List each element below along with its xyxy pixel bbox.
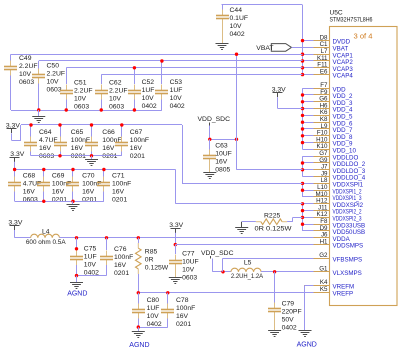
wire VREFP [305,292,314,294]
wire stub VDD [303,94,314,96]
junction [301,100,304,103]
junction [301,66,304,69]
svg-text:10V: 10V [74,96,87,103]
wire C79 lead [274,272,276,303]
svg-text:C52: C52 [142,79,155,86]
wire 3.3V stem IC [277,97,279,109]
wire stub VDDLDO [303,162,314,164]
wire lead C69 [43,170,45,177]
wire stub VDDLDO [303,176,314,178]
wire stub VDDXSPI1 [303,196,314,198]
svg-text:AGND: AGND [67,290,87,297]
svg-text:0201: 0201 [52,196,67,203]
pin F11 VCAP3 [304,62,353,73]
wire C78 lead [167,293,169,304]
junction [301,134,304,137]
value label C50 [47,63,66,94]
svg-text:16V: 16V [102,145,115,152]
wire net VCAP2 [39,60,303,62]
svg-text:0402: 0402 [142,103,157,110]
svg-text:VREFP: VREFP [333,290,354,297]
junction [301,216,304,219]
capacitor C67 [115,137,128,152]
value label C49 [19,55,38,86]
wire gnd drop row1 [38,110,40,117]
svg-text:0603: 0603 [74,104,89,111]
inductor L5 [231,268,261,272]
junction C66 top [90,123,93,126]
junction C80 top [137,291,140,294]
pin C1 VBAT [304,41,348,52]
wire lead C64 [30,125,32,137]
svg-text:3 of 4: 3 of 4 [354,32,373,41]
wire 3.3V row2 jog [11,133,13,140]
wire bus VDDXSPI2/USB [302,204,304,231]
svg-text:0603: 0603 [47,87,62,94]
pin G1 VLXSMPS [304,266,362,277]
value label C64 [39,129,58,160]
junction [301,59,304,62]
wire net VFBSMPS [223,258,314,260]
pin K5 VREFP [304,286,353,297]
ground R225 [241,222,243,228]
svg-text:100nF: 100nF [176,305,195,312]
wire lead C53 [161,61,163,84]
wire lead C62 [101,75,103,84]
svg-text:16V: 16V [71,145,84,152]
wire bus DVDD/VCAP [302,5,304,75]
power symbol 3.3V [272,86,286,97]
capacitor C69 [37,177,50,192]
wire stub VCAP [303,74,314,76]
svg-text:L4: L4 [42,229,50,236]
svg-text:G1: G1 [319,266,328,273]
wire C75-C76 gnd link [77,275,107,277]
pin K11 VCAP2 [304,55,353,66]
wire row2 ground bus [31,155,122,157]
junction row1 gnd [100,108,103,111]
pin L8 VDDXSPI1 [304,177,364,188]
wire R225 left [242,221,256,223]
value label C69 [52,172,71,203]
svg-text:VLXSMPS: VLXSMPS [333,270,362,277]
svg-text:AGND: AGND [129,342,149,348]
svg-text:VDD_SDC: VDD_SDC [198,116,231,123]
value label C75 [84,245,99,276]
op-amp U5C (IC STM32H7S7L8H6 power symbol, 3 of 4) [330,27,398,306]
svg-text:C79: C79 [282,300,295,307]
junction C65 top [58,123,61,126]
pin J7 VDDLDO_3 [304,164,366,175]
wire stub VDDLDO [303,156,314,158]
svg-text:16V: 16V [23,188,36,195]
junction [301,121,304,124]
junction L5 right / C79 tap [273,270,276,273]
wire W1 vertical [236,54,238,170]
capacitor C77 [169,255,182,270]
svg-text:16V: 16V [82,188,95,195]
wire stub VDD [303,135,314,137]
wire R85 bottom lead [138,274,140,293]
capacitor C68 [8,177,21,192]
value label C53 [170,79,185,110]
pin F8 VDD33USB [304,218,365,229]
wire C63 lead [209,139,211,149]
svg-text:0R: 0R [145,256,154,263]
wire stub DVDD [303,40,314,42]
pin H1 VDDSMPS [304,238,363,249]
value label R85 [145,248,169,271]
wire 3.3V to VDD bus [278,108,303,110]
wire C78 bottom [167,319,169,328]
svg-text:100nF: 100nF [82,180,101,187]
net flag VBAT [271,44,291,52]
svg-text:G2: G2 [319,252,328,259]
svg-text:10UF: 10UF [215,151,232,158]
wire R85 top lead [138,238,140,243]
ground [169,278,182,284]
svg-text:C44: C44 [230,7,243,14]
wire lead C49 [10,54,12,60]
wire stub VDD [303,149,314,151]
wire stub VDDXSPI2 [303,217,314,219]
wire stub VDD [303,108,314,110]
AGND symbol [297,331,317,348]
svg-text:R225: R225 [264,212,280,219]
wire W1 to VDDLDO bus [237,169,303,171]
wire stub VDD [303,122,314,124]
svg-text:VCAP4: VCAP4 [333,73,354,80]
junction [301,141,304,144]
junction [301,127,304,130]
junction row3 gnd [71,200,74,203]
svg-text:C49: C49 [19,55,32,62]
wire C76 lead [106,238,108,250]
junction C70 top [71,168,74,171]
capacitor C70 [66,177,79,192]
svg-text:VBAT: VBAT [256,45,273,52]
svg-text:0402: 0402 [282,324,297,331]
svg-text:1UF: 1UF [170,87,183,94]
svg-text:2.2UH_1.2A: 2.2UH_1.2A [231,273,264,280]
svg-text:0603: 0603 [19,79,34,86]
svg-text:1UF: 1UF [84,253,97,260]
wire row2 top 3.3V rail [21,124,182,126]
wire stub VDD [303,88,314,90]
svg-text:0603: 0603 [109,104,124,111]
wire stub VCAP [303,67,314,69]
svg-text:16V: 16V [112,188,125,195]
svg-text:VDD_SDC: VDD_SDC [201,250,234,257]
pin H12 VDDXSPI2 [304,198,364,209]
pin J11 VDDXSPI2_2 [304,204,362,215]
junction [301,182,304,185]
svg-text:100nF: 100nF [114,254,133,261]
svg-text:10V: 10V [230,23,243,30]
junction [301,93,304,96]
svg-text:C78: C78 [176,297,189,304]
ground [268,331,281,337]
junction [301,114,304,117]
svg-text:L5: L5 [244,260,252,267]
value label C65 [71,129,90,160]
svg-text:50V: 50V [282,316,295,323]
svg-text:C65: C65 [71,129,84,136]
inductor L4 [31,234,60,238]
svg-text:C51: C51 [74,80,87,87]
capacitor C52 [128,85,141,100]
wire lead C65 [60,125,62,137]
wire stub VDDXSPI1 [303,190,314,192]
wire segB down [182,125,184,183]
wire VREF riser [304,285,306,331]
junction [301,39,304,42]
wire C80-C78 bottom link [138,327,168,329]
wire gnd drop row2 [91,156,93,160]
wire lead C51 [66,68,68,84]
wire VREFM [305,285,314,287]
wire C76 bottom [106,265,108,276]
svg-text:0603: 0603 [23,196,38,203]
wire bus VDDLDO [302,156,304,176]
value label C62 [109,80,128,111]
svg-text:0201: 0201 [130,153,145,160]
pin K12 VDDXSPI2_3 [304,211,362,222]
svg-text:VFBSMPS: VFBSMPS [333,256,363,263]
ground [235,228,248,234]
wire C80 lead [138,293,140,304]
svg-text:10V: 10V [84,261,97,268]
junction row1 gnd [65,108,68,111]
pin J6 VDDA [304,232,351,243]
junction VDDA rail [105,236,108,239]
svg-text:10V: 10V [147,313,160,320]
wire R225 riser [292,217,294,221]
wire agnd drop C80 [138,327,140,331]
value label C63 [215,143,232,174]
wire net VDDA [60,237,314,239]
value label C66 [102,129,121,160]
svg-text:10V: 10V [182,266,195,273]
wire VDD_SDC drop [209,126,211,140]
pin G9 VDDLDO_2 [304,157,366,168]
svg-text:1UF: 1UF [147,305,160,312]
pin F10 VDD_8 [304,130,353,141]
junction row2 gnd [90,154,93,157]
capacitor C66 [85,137,98,152]
wire VFBSMPS riser [222,258,224,272]
svg-text:2.2UF: 2.2UF [74,88,93,95]
svg-text:0R 0.125W: 0R 0.125W [255,225,293,232]
junction [301,168,304,171]
value label C78 [176,297,195,328]
junction row1 gnd [133,108,136,111]
ground [32,117,45,123]
ground [203,173,216,179]
svg-text:C69: C69 [52,172,65,179]
value label C68 [23,172,42,203]
wire stub VCAP [303,54,314,56]
capacitor C79 [268,303,281,318]
pin G7 VDDLDO [304,150,358,161]
svg-text:10V: 10V [170,95,183,102]
capacitor C76 [100,251,113,266]
junction C80 agnd [137,325,140,328]
wire stub VDD [303,142,314,144]
svg-text:E6: E6 [320,68,328,75]
junction C78 top [166,291,169,294]
power symbol 3.3V [169,222,183,233]
junction VDDA rail [137,236,140,239]
svg-text:0402: 0402 [170,103,185,110]
svg-text:10V: 10V [109,96,122,103]
svg-text:0201: 0201 [112,196,127,203]
capacitor C44 [216,10,229,25]
pin M10 VDDXSPI1_3 [304,191,362,202]
pin L7 VCAP1 [304,48,353,59]
svg-text:H1: H1 [320,238,328,245]
wire W2 down [175,170,177,204]
wire C75 lead [76,238,78,250]
svg-text:STM32H7S7L8H6: STM32H7S7L8H6 [330,16,373,23]
svg-text:100nF: 100nF [112,180,131,187]
junction [301,223,304,226]
capacitor C49 [4,61,17,76]
AGND symbol [67,283,87,298]
wire C77 to ground [175,269,177,278]
wire row3 ground bus [15,201,104,203]
capacitor C64 [24,137,37,152]
svg-text:C80: C80 [147,297,160,304]
value label C70 [82,172,101,203]
svg-text:16V: 16V [114,262,127,269]
wire net AGND horizontal [138,292,305,294]
svg-text:C62: C62 [109,80,122,87]
wire C63 to ground [209,165,211,173]
wire C77 lead [175,245,177,254]
capacitor C63 [203,150,216,165]
ground [216,44,229,50]
capacitor C53 [155,85,168,100]
wire lead C52 [134,68,136,84]
wire stub VDDXSPI2 [303,224,314,226]
junction C75 agnd [75,274,78,277]
junction C53 on VCAP2 [160,59,163,62]
wire 3.3V row3 stem [14,162,16,170]
svg-text:0201: 0201 [102,153,117,160]
pin K10 VDD_10 [304,143,356,154]
svg-text:16V: 16V [52,188,65,195]
svg-text:0603: 0603 [182,274,197,281]
svg-text:2.2UF: 2.2UF [109,88,128,95]
wire net VLXSMPS [261,271,313,273]
wire agnd drop [76,276,78,282]
junction C64 top [29,123,32,126]
power symbol 3.3V [10,151,25,162]
value label C80 [147,297,162,328]
wire stub VDD [303,101,314,103]
wire stub VDDXSPI2 [303,230,314,232]
svg-text:C77: C77 [182,250,195,257]
wire stub VDDLDO [303,169,314,171]
junction VDDA rail [75,236,78,239]
pin F7 VDD [304,82,346,93]
wire row1 ground bus [11,110,162,112]
value label C44 [230,7,249,38]
wire row3 top 3.3V rail [15,169,176,171]
junction [301,107,304,110]
wire lead C67 [121,125,123,137]
svg-text:0201: 0201 [82,196,97,203]
svg-text:0201: 0201 [176,321,191,328]
svg-text:C50: C50 [47,63,60,70]
pin L10 VDDXSPI1_2 [304,184,362,195]
pin D8 DVDD [304,34,351,45]
svg-text:2.2UF: 2.2UF [19,63,38,70]
wire VBAT to pin C1 [292,47,314,49]
pin H10 VDD_9 [304,136,353,147]
pin G2 VFBSMPS [304,252,362,263]
junction C75 extra [75,247,78,250]
capacitor C50 [32,69,45,84]
wire C79 to ground [274,318,276,331]
capacitor C62 [95,85,108,100]
wire stub VDDXSPI2 [303,203,314,205]
svg-text:0805: 0805 [215,167,230,174]
junction row3 gnd [42,200,45,203]
value label C76 [114,246,133,277]
svg-text:C53: C53 [170,79,183,86]
junction [301,161,304,164]
wire net VCAP1 [11,54,303,56]
junction C77 top [174,243,177,246]
svg-text:600 ohm 0.5A: 600 ohm 0.5A [26,239,66,246]
junction W1 on VCAP1 [235,53,238,56]
pin G6 VDD_3 [304,96,353,107]
svg-text:C63: C63 [215,143,228,150]
svg-text:100nF: 100nF [130,137,149,144]
wire gnd drop row3 [72,201,74,205]
junction W1 tap [235,138,238,141]
svg-text:4.7UF: 4.7UF [23,180,42,187]
svg-text:0201: 0201 [71,153,86,160]
capacitor C51 [60,85,73,100]
svg-text:AGND: AGND [297,341,317,348]
pin J9 VDDLDO_4 [304,170,366,181]
wire C44 to ground [222,25,224,44]
wire stub VDDXSPI1 [303,183,314,185]
wire VDD_SDC2 drop [212,259,214,272]
value label C67 [130,129,149,160]
junction C69 top [42,168,45,171]
wire 3.3V C77 stem [175,233,177,245]
junction row2 gnd [58,154,61,157]
svg-text:10V: 10V [47,79,60,86]
value label C52 [142,79,157,110]
svg-text:16V: 16V [176,313,189,320]
wire bus VDD [302,88,304,149]
junction L5 left [221,270,224,273]
wire stub VCAP [303,60,314,62]
svg-text:0201: 0201 [114,270,129,277]
svg-text:10UF: 10UF [182,258,199,265]
wire net VDDSMPS [175,244,313,246]
pin K8 VDD_6 [304,116,353,127]
svg-text:C67: C67 [130,129,143,136]
junction [301,202,304,205]
svg-text:R85: R85 [145,248,158,255]
wire C44 top rail to DVDD bus [222,4,303,6]
